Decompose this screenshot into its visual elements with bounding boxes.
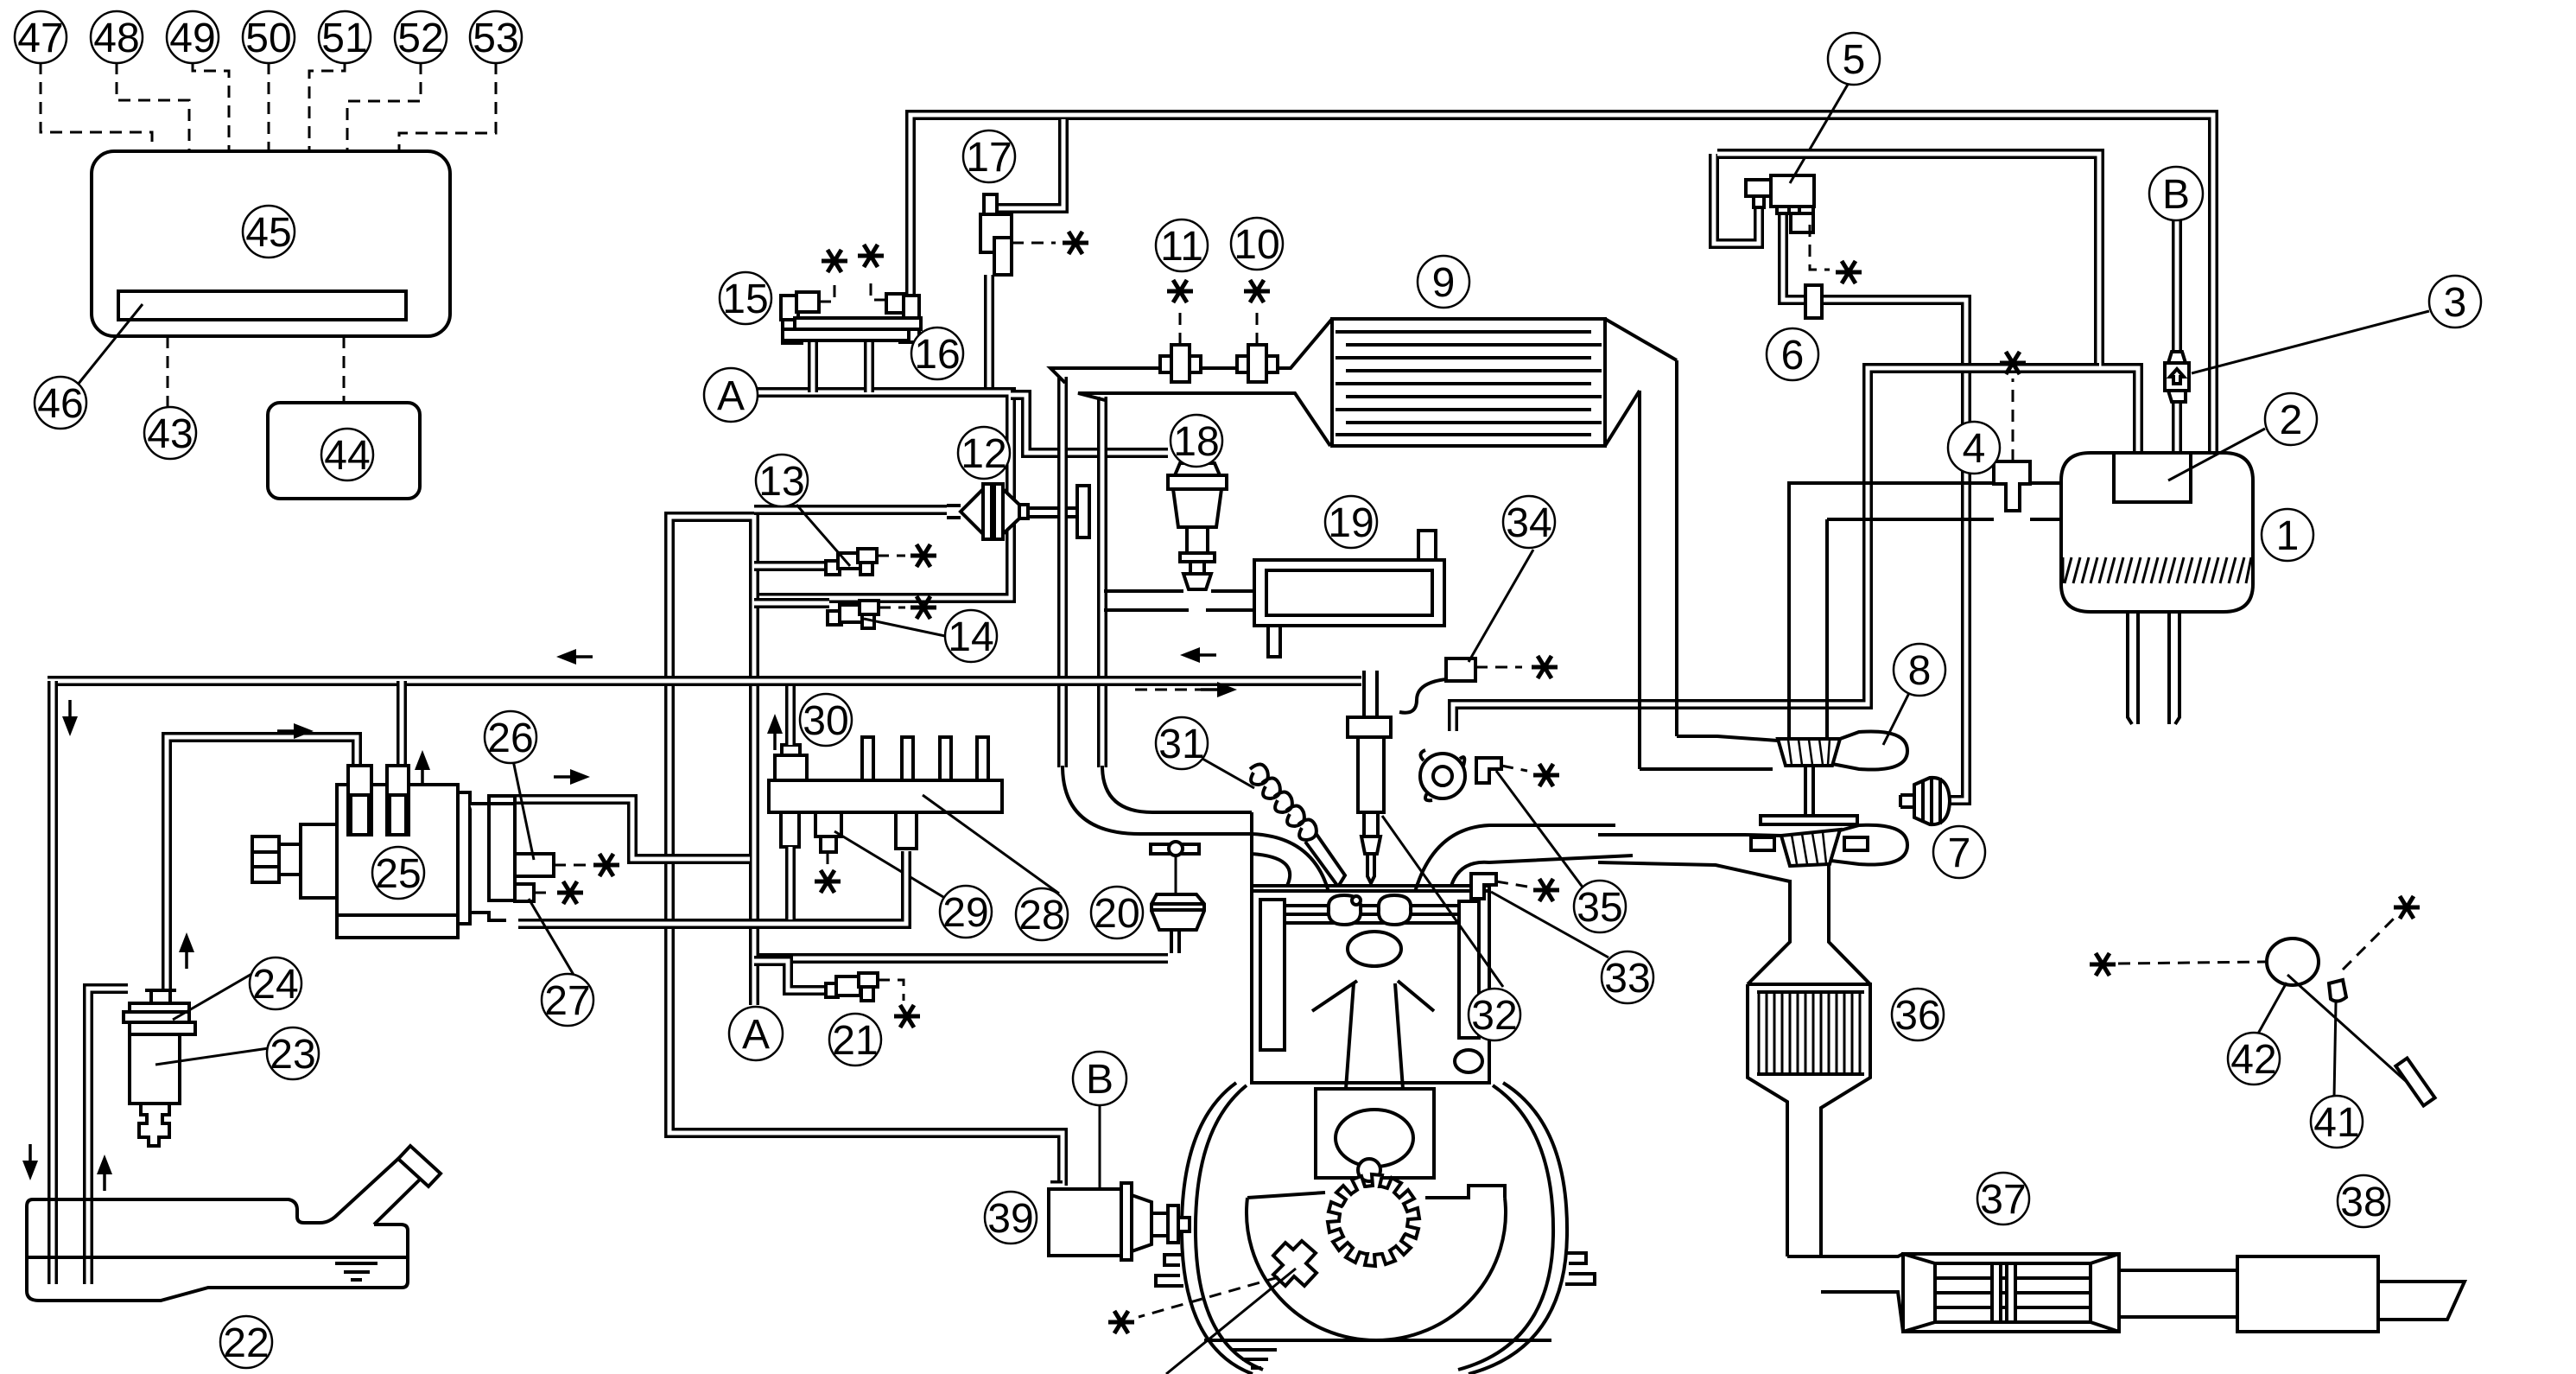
piston rings bbox=[1285, 906, 1459, 923]
svg-text:53: 53 bbox=[473, 16, 518, 61]
vacuum loop rectangle to valves 13/14 bbox=[669, 517, 1063, 1186]
pedal pad bbox=[2395, 1058, 2434, 1105]
svg-text:48: 48 bbox=[93, 16, 139, 61]
tank hatch band bbox=[2063, 557, 2251, 583]
pipe: pump to rail feed bbox=[518, 851, 906, 924]
svg-text:37: 37 bbox=[1980, 1177, 2026, 1223]
leader line 34 bbox=[1469, 550, 1533, 662]
rail inlet fitting 30 bbox=[775, 755, 807, 780]
leader line 23 bbox=[155, 1047, 275, 1065]
leader line 14 bbox=[864, 619, 945, 636]
svg-text:20: 20 bbox=[1094, 891, 1139, 937]
dashed lead 21 bbox=[878, 980, 904, 1001]
svg-text:46: 46 bbox=[37, 381, 83, 427]
svg-text:11: 11 bbox=[1160, 224, 1203, 270]
pipe between mufflers bbox=[2119, 1270, 2237, 1317]
crankcase outline bbox=[1182, 1083, 1567, 1374]
balloon 28 bbox=[1016, 888, 1068, 940]
svg-text:15: 15 bbox=[722, 277, 768, 322]
crankcase mount lugs bbox=[1156, 1253, 1595, 1286]
balloon 36 bbox=[1892, 989, 1944, 1040]
balloon 18 bbox=[1171, 415, 1222, 467]
balloon A left bbox=[704, 368, 758, 422]
balloon 16 bbox=[911, 328, 963, 379]
leader line 31 bbox=[1202, 759, 1254, 788]
svg-text:19: 19 bbox=[1328, 500, 1374, 546]
svg-text:23: 23 bbox=[270, 1032, 315, 1078]
balloon 19 bbox=[1325, 496, 1377, 548]
svg-text:10: 10 bbox=[1234, 222, 1279, 268]
svg-text:35: 35 bbox=[1577, 885, 1622, 931]
svg-text:52: 52 bbox=[397, 16, 443, 61]
pipe: riser to valve 15 bbox=[808, 340, 818, 392]
compressor housing 8 bbox=[1640, 736, 1778, 769]
dashed lead 53 bbox=[399, 62, 496, 151]
T fitting 4 bbox=[1994, 461, 2030, 511]
pipe: boost reference line 2 bbox=[1717, 154, 2138, 453]
dashed lead 52 bbox=[347, 62, 421, 151]
asterisk (crank sensor) bbox=[1108, 1311, 1134, 1333]
svg-text:32: 32 bbox=[1471, 993, 1517, 1039]
svg-text:36: 36 bbox=[1894, 993, 1940, 1039]
filter bottom fitting bbox=[139, 1104, 169, 1146]
balloon 13 bbox=[756, 455, 808, 506]
box 44 bbox=[268, 403, 420, 499]
rear muffler 38 bbox=[2237, 1256, 2465, 1332]
arrow up beside pump riser bbox=[415, 750, 430, 786]
svg-text:1: 1 bbox=[2276, 513, 2300, 559]
dashed lead from 5 to asterisk bbox=[1810, 225, 1830, 270]
EGR downpipe bbox=[1057, 377, 1068, 767]
leader line 2 bbox=[2168, 429, 2265, 480]
asterisk (10) bbox=[1244, 280, 1270, 302]
balloon 35 bbox=[1574, 881, 1626, 932]
oil level bbox=[1204, 1340, 1551, 1368]
dashed lead 50 bbox=[268, 62, 270, 151]
svg-text:14: 14 bbox=[948, 614, 993, 660]
balloon A bottom bbox=[729, 1007, 783, 1060]
leader line 33 bbox=[1491, 892, 1608, 957]
balloon 43 bbox=[144, 407, 196, 459]
arrow up at 30 bbox=[767, 714, 783, 750]
balloon 9 bbox=[1418, 256, 1469, 308]
arrow down near tank left bbox=[22, 1144, 38, 1180]
pipe: manifold from A to junction bbox=[758, 392, 1011, 598]
svg-text:49: 49 bbox=[169, 16, 215, 61]
surge tank 1 bbox=[2061, 453, 2253, 612]
duct from cooler down to compressor bbox=[1640, 360, 1677, 769]
svg-text:47: 47 bbox=[17, 16, 63, 61]
balloon 24 bbox=[250, 957, 301, 1009]
dashed lead 11 bbox=[1179, 307, 1182, 345]
balloon 10 bbox=[1231, 218, 1283, 270]
svg-text:41: 41 bbox=[2313, 1100, 2359, 1146]
dashed lead 41 asterisk bbox=[2343, 918, 2395, 970]
compressor volute bbox=[1832, 731, 1907, 769]
svg-text:30: 30 bbox=[803, 698, 848, 744]
fuel filter body 23 bbox=[130, 1034, 180, 1104]
svg-text:21: 21 bbox=[832, 1018, 878, 1064]
balloon 4 bbox=[1948, 422, 2000, 474]
dashed lead 35 bbox=[1501, 766, 1527, 771]
balloon 48 bbox=[91, 11, 143, 63]
EGR passage upper line bbox=[1050, 319, 1332, 383]
vacuum valve 16 bbox=[886, 294, 905, 313]
EGR cooler 9 core bbox=[1332, 319, 1605, 446]
asterisk (42) bbox=[2090, 953, 2116, 976]
balloon 33 bbox=[1602, 951, 1653, 1003]
balloon 45 bbox=[243, 206, 295, 258]
crank gear bbox=[1328, 1174, 1419, 1266]
separator 2 inside tank bbox=[2114, 453, 2191, 502]
svg-text:31: 31 bbox=[1158, 722, 1204, 767]
cylinder head top bbox=[1252, 812, 1329, 892]
leader line crank sensor down bbox=[1166, 1269, 1296, 1374]
valves bbox=[1329, 895, 1361, 925]
turbo shaft bbox=[1805, 766, 1813, 816]
balloon 32 bbox=[1469, 989, 1520, 1040]
cross fitting 11 bbox=[1160, 356, 1201, 372]
dashed lead 4 bbox=[2012, 378, 2014, 461]
balloon 38 bbox=[2338, 1175, 2389, 1227]
leader line 32 bbox=[1382, 816, 1503, 987]
solenoid valve 14 bbox=[828, 611, 841, 625]
svg-text:16: 16 bbox=[914, 332, 960, 378]
main muffler 37 bbox=[1903, 1254, 2119, 1332]
svg-text:28: 28 bbox=[1018, 893, 1064, 938]
svg-text:29: 29 bbox=[942, 890, 988, 936]
arrow up on filter riser bbox=[179, 932, 194, 969]
balloon 44 bbox=[321, 429, 373, 480]
balloon 3 bbox=[2429, 276, 2481, 328]
pump drive bolt bbox=[279, 844, 301, 875]
balloon 7 bbox=[1933, 826, 1985, 878]
balloon 8 bbox=[1894, 644, 1945, 696]
svg-text:50: 50 bbox=[245, 16, 291, 61]
pipe: compressor outlet duct up bbox=[1789, 519, 1827, 739]
turbine bracket bbox=[1761, 816, 1857, 824]
svg-text:2: 2 bbox=[2280, 398, 2303, 443]
svg-text:45: 45 bbox=[245, 210, 291, 256]
crank counterweight bbox=[1247, 1186, 1506, 1340]
arrow right on filter-pump pipe bbox=[277, 723, 314, 739]
balloon B bottom bbox=[1073, 1052, 1126, 1105]
balloon 1 bbox=[2262, 509, 2313, 561]
pump inlet tab left bbox=[348, 766, 371, 835]
balloon 47 bbox=[15, 11, 67, 63]
balloon 20 bbox=[1091, 887, 1143, 938]
starter/injection pump 39 bbox=[1049, 1189, 1121, 1256]
balloon 51 bbox=[319, 11, 371, 63]
damper 20 bbox=[1152, 894, 1204, 930]
pipe: branch to valve 17 bbox=[990, 119, 1063, 214]
pedal position sensor 41 bbox=[2329, 980, 2346, 1002]
leader line 42 bbox=[2258, 983, 2287, 1034]
turbine volute bbox=[1831, 825, 1907, 865]
balloon 22 bbox=[220, 1316, 272, 1368]
dashed lead 47 bbox=[41, 62, 152, 151]
fuel level line bbox=[27, 1257, 408, 1280]
dashed lead 16 asterisk bbox=[871, 277, 886, 300]
intake elbow into head bbox=[1063, 766, 1252, 834]
EGR valve 18 bbox=[1175, 463, 1220, 475]
pump port 26 bbox=[515, 854, 554, 876]
ECU box 45 bbox=[92, 151, 450, 336]
arrow left on return bbox=[556, 649, 593, 665]
pipe: fuel return rail (long) bbox=[48, 676, 1361, 686]
pipe: line from B marker down through check valve 3 bbox=[2172, 220, 2182, 453]
svg-text:3: 3 bbox=[2444, 280, 2467, 326]
svg-text:A: A bbox=[717, 373, 745, 419]
svg-text:17: 17 bbox=[966, 135, 1012, 181]
svg-text:B: B bbox=[1086, 1057, 1114, 1103]
arrow left near engine bbox=[1180, 647, 1216, 663]
balloon 17 bbox=[963, 130, 1015, 182]
temp sensor 34 bbox=[1446, 658, 1475, 681]
asterisk (5) bbox=[1836, 261, 1862, 283]
dashed lead 49 bbox=[193, 62, 229, 151]
asterisk (4) bbox=[2000, 352, 2026, 374]
dashed lead 33 bbox=[1496, 881, 1527, 887]
svg-text:9: 9 bbox=[1432, 260, 1456, 306]
balloon 37 bbox=[1977, 1173, 2029, 1225]
injector 32 bbox=[1364, 671, 1377, 717]
balloon 34 bbox=[1503, 496, 1555, 548]
throttle plate in duct bbox=[1077, 486, 1089, 538]
balloon 49 bbox=[167, 11, 219, 63]
pipe: pump upper branch bbox=[515, 799, 750, 859]
dashed lead crank sensor bbox=[1139, 1277, 1278, 1317]
pipe: return to fuel tank 22 bbox=[48, 681, 58, 1284]
wide pipe: compressor to tank bbox=[1789, 483, 2061, 525]
leader line 5 bbox=[1790, 83, 1849, 183]
asterisk (41) bbox=[2394, 896, 2420, 919]
pipe: branch to EGR valve 18 bbox=[1011, 395, 1168, 453]
svg-text:34: 34 bbox=[1506, 500, 1551, 546]
dashed lead 51 bbox=[309, 62, 345, 151]
asterisk (14) bbox=[910, 596, 936, 619]
balloon 53 bbox=[470, 11, 522, 63]
pipe: line from solenoid 5 to wastegate actuator bbox=[1783, 212, 1966, 800]
accelerator pedal sensor 42 bbox=[2267, 938, 2319, 985]
pipe: tank to filter suction bbox=[88, 989, 128, 1284]
pipe: return line to damper bbox=[758, 953, 1168, 964]
svg-text:51: 51 bbox=[321, 16, 367, 61]
sensor port 33 bbox=[1471, 874, 1496, 899]
asterisk (15) bbox=[822, 250, 847, 272]
arrow up near tank dip bbox=[104, 1167, 106, 1187]
dashed lead 34 bbox=[1475, 666, 1522, 669]
svg-text:24: 24 bbox=[252, 962, 298, 1008]
rail port A bbox=[781, 812, 799, 847]
dashed lead 42 asterisk bbox=[2118, 962, 2265, 964]
rail port C bbox=[896, 812, 917, 849]
dashed lead 14 asterisk bbox=[879, 607, 905, 609]
svg-text:7: 7 bbox=[1948, 830, 1971, 876]
intake downpipe bbox=[1097, 397, 1107, 767]
throttle symbol above damper 20 bbox=[1151, 844, 1171, 854]
catalytic converter 36 bbox=[1748, 984, 1870, 1256]
asterisk (26) bbox=[593, 854, 619, 876]
asterisk (34) bbox=[1532, 656, 1558, 678]
EGR passage lower line bbox=[1078, 393, 1330, 446]
pump right flange bbox=[458, 792, 470, 924]
pipe: branch to valve 13 bbox=[754, 561, 828, 571]
big end block bbox=[1316, 1089, 1434, 1178]
dashed lead 17 to asterisk bbox=[1012, 242, 1056, 245]
fuel filter cap 24 bbox=[130, 1003, 189, 1012]
asterisk (13) bbox=[910, 544, 936, 567]
turbine wheel bbox=[1781, 830, 1840, 866]
balloon 41 bbox=[2311, 1096, 2363, 1148]
balloon 11 bbox=[1156, 219, 1208, 271]
solenoid valve 5 bbox=[1746, 180, 1771, 196]
stub from 30 up to return bbox=[785, 686, 796, 745]
common rail 28 bbox=[769, 780, 1002, 812]
balloon 52 bbox=[395, 11, 447, 63]
head gasket lines bbox=[1252, 886, 1489, 891]
line from B bottom to starter bbox=[1099, 1106, 1101, 1187]
balloon 46 bbox=[35, 377, 86, 429]
intake manifold 19 bbox=[1254, 560, 1444, 626]
EGR vacuum actuator 12 bbox=[947, 506, 961, 518]
pipe: return branch down to pump bbox=[397, 681, 407, 769]
balloon 2 bbox=[2265, 393, 2317, 445]
svg-text:8: 8 bbox=[1908, 648, 1932, 694]
pipe: drain from valve 16 bbox=[864, 340, 874, 392]
balloon 25 bbox=[372, 847, 424, 899]
vacuum valve 15 bbox=[781, 296, 798, 320]
asterisk (16) bbox=[858, 245, 884, 267]
rail port B (29) bbox=[815, 812, 841, 836]
valve 17 body bbox=[984, 194, 997, 214]
pipe: rail port down bbox=[785, 847, 796, 919]
inline filter 6 bbox=[1805, 285, 1822, 318]
leader line 26 bbox=[513, 760, 534, 860]
balloon 12 bbox=[958, 427, 1010, 479]
svg-text:6: 6 bbox=[1781, 333, 1805, 378]
balloon 6 bbox=[1767, 328, 1818, 380]
balloon 27 bbox=[542, 974, 593, 1026]
pump left housing bbox=[301, 824, 337, 898]
svg-text:22: 22 bbox=[223, 1320, 269, 1366]
pump port 27 bbox=[515, 884, 534, 901]
solenoid valve 13 bbox=[826, 561, 840, 575]
svg-text:42: 42 bbox=[2230, 1037, 2276, 1083]
leader line 35 bbox=[1496, 771, 1586, 892]
pipe: turbine outlet down to catalyst bbox=[1748, 864, 1870, 984]
filler cap 22 bbox=[398, 1146, 441, 1186]
svg-text:26: 26 bbox=[487, 716, 533, 761]
pipe: right wall down to A bottom bbox=[749, 553, 759, 1005]
piston bowl bbox=[1348, 932, 1401, 966]
svg-text:33: 33 bbox=[1604, 956, 1650, 1002]
exhaust duct to muffler 37 bbox=[1787, 1254, 1903, 1332]
ECU connector strip 46 bbox=[118, 291, 406, 320]
pipe: filter to pump inlet bbox=[167, 737, 357, 1003]
link 12 to throttle plate bbox=[1028, 508, 1077, 517]
compressor wheel bbox=[1778, 739, 1840, 766]
check valve 3 bbox=[2165, 363, 2189, 391]
pipe: boost line loop at solenoid 5 bbox=[1714, 154, 1759, 244]
asterisk (33) bbox=[1533, 879, 1559, 901]
balloon 14 bbox=[945, 610, 997, 662]
glow plug 31 coil bbox=[1250, 764, 1317, 840]
arrow right above pump pipe bbox=[554, 769, 590, 785]
svg-text:4: 4 bbox=[1963, 426, 1986, 472]
crank position sensor bbox=[1273, 1241, 1317, 1286]
svg-text:12: 12 bbox=[961, 431, 1006, 477]
balloon 30 bbox=[800, 694, 852, 746]
svg-text:44: 44 bbox=[324, 433, 370, 479]
balloon 15 bbox=[720, 272, 771, 324]
valve 21 bbox=[826, 983, 838, 997]
pedal lever bbox=[2287, 975, 2407, 1082]
balloon 23 bbox=[267, 1027, 319, 1079]
svg-text:B: B bbox=[2162, 172, 2190, 218]
pipe: line to EGR actuator 12 bbox=[754, 505, 947, 515]
leader line 8 bbox=[1883, 690, 1911, 745]
cam sensor rosette bbox=[1420, 754, 1465, 798]
balloon 29 bbox=[940, 886, 992, 938]
rail pins bbox=[862, 737, 873, 780]
leader line 28 bbox=[923, 795, 1059, 894]
pump lower band bbox=[337, 913, 458, 917]
balloon 50 bbox=[243, 11, 295, 63]
pipe: from loop to starter 39 bbox=[1050, 1180, 1063, 1191]
leader line 27 bbox=[529, 899, 574, 975]
pipe: fuel return top run bbox=[910, 115, 2213, 453]
dashed lead 43 bbox=[167, 336, 169, 406]
piston skirt and rod bbox=[1312, 981, 1434, 1089]
wastegate actuator bbox=[1914, 778, 1950, 824]
pipe: valve 17 drain down to manifold A bbox=[984, 275, 994, 391]
dashed arrow right to injector bbox=[1135, 689, 1202, 691]
cross fitting 10 bbox=[1237, 356, 1278, 372]
svg-text:38: 38 bbox=[2340, 1180, 2386, 1225]
svg-text:25: 25 bbox=[375, 851, 421, 897]
balloon 42 bbox=[2228, 1033, 2280, 1085]
svg-text:5: 5 bbox=[1843, 37, 1866, 83]
svg-text:18: 18 bbox=[1173, 419, 1219, 465]
dashed lead 29 bbox=[827, 852, 829, 866]
supply pump 25 body bbox=[337, 785, 458, 938]
asterisk (27) bbox=[557, 881, 583, 904]
balloon 21 bbox=[829, 1014, 881, 1065]
dashed lead 13 asterisk bbox=[877, 555, 905, 557]
balloon B top bbox=[2149, 167, 2203, 220]
cylinder block bbox=[1252, 886, 1489, 1083]
dashed lead 10 bbox=[1256, 307, 1259, 345]
pipe: branch to valve 14 bbox=[754, 598, 829, 608]
arrow down on far-left return bbox=[62, 700, 78, 736]
sensor port 35 bbox=[1476, 758, 1501, 783]
dashed lead 15 asterisk bbox=[819, 278, 834, 302]
svg-text:39: 39 bbox=[987, 1196, 1033, 1242]
pipe: branch down to injector leak line bbox=[1453, 368, 2099, 731]
balloon 26 bbox=[485, 711, 536, 763]
asterisk (29) bbox=[815, 870, 841, 893]
asterisk 17 bbox=[1063, 232, 1088, 254]
svg-text:27: 27 bbox=[544, 978, 590, 1024]
dashed lead 48 bbox=[117, 62, 189, 151]
leader line 41 bbox=[2334, 1002, 2336, 1097]
svg-text:13: 13 bbox=[758, 459, 804, 505]
svg-text:43: 43 bbox=[147, 411, 193, 457]
dashed lead 26 bbox=[554, 864, 587, 867]
balloon 5 bbox=[1828, 33, 1880, 85]
dashed lead 27 bbox=[534, 892, 553, 894]
